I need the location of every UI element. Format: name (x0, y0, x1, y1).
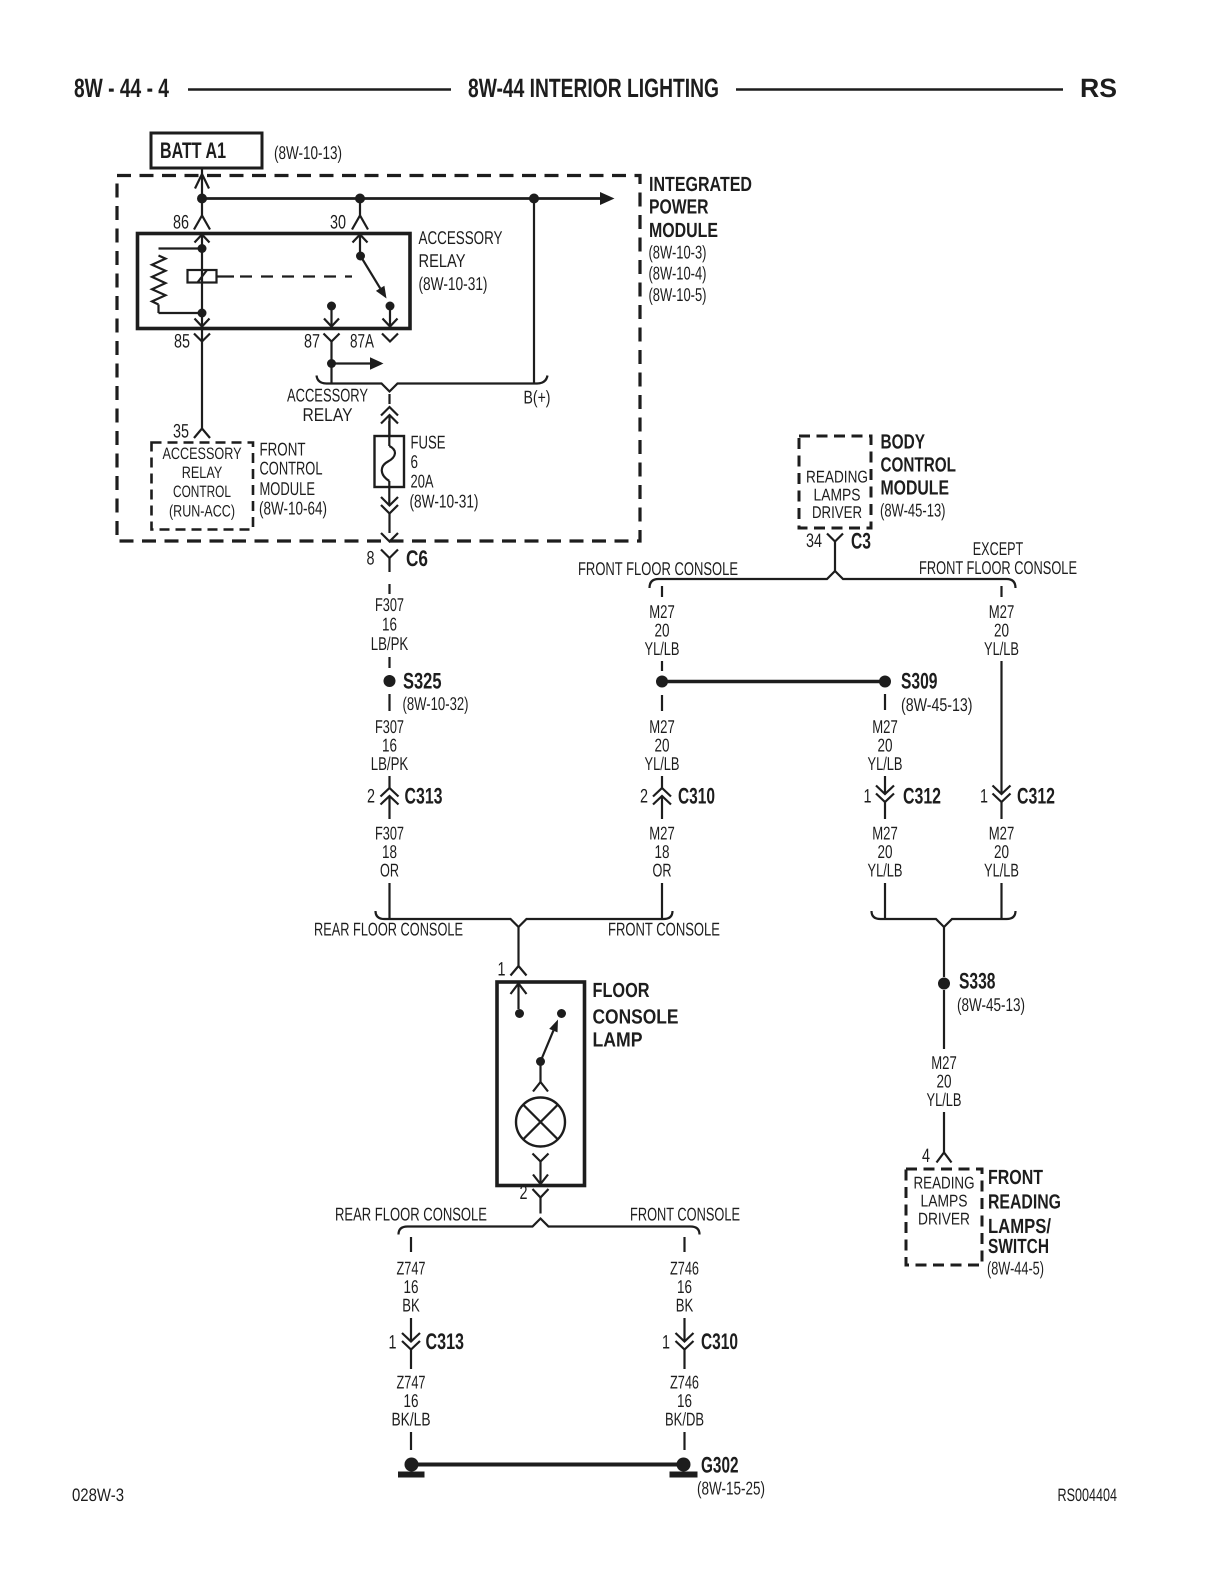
pin 35 label and connector (173, 421, 210, 443)
svg-text:MODULE: MODULE (260, 478, 316, 499)
fuse label (410, 432, 479, 512)
svg-text:MODULE: MODULE (881, 477, 950, 500)
relay contact 87A node (386, 302, 395, 311)
svg-text:(8W-10-5): (8W-10-5) (649, 284, 707, 305)
pin 87A label and connector (350, 331, 398, 353)
wire M27 to pin 4 (943, 1112, 945, 1152)
ground G302 right node (670, 1458, 698, 1475)
wire label F307 16 LB/PK lower (371, 716, 409, 774)
wire label F307 16 LB/PK upper (371, 594, 409, 654)
svg-text:F307: F307 (375, 594, 404, 615)
bulb to lamp pin 2 wire with connector and exit arrowhead (533, 1154, 549, 1185)
svg-text:RELAY: RELAY (419, 250, 466, 271)
splice S309 (879, 676, 891, 688)
wire label M27 20 YL/LB to C310 (645, 716, 680, 774)
svg-text:20A: 20A (411, 471, 434, 492)
svg-text:LB/PK: LB/PK (371, 753, 409, 774)
lamp switch contact node left (515, 1009, 524, 1018)
wire label M27 20 YL/LB below C312 right (984, 823, 1019, 881)
accessory relay control label (163, 445, 242, 521)
svg-text:BK/DB: BK/DB (665, 1409, 704, 1430)
B+ bus wire with right arrowhead (202, 192, 615, 205)
accessory relay label (419, 227, 503, 294)
ground G302 label (697, 1453, 765, 1499)
svg-text:YL/LB: YL/LB (868, 860, 903, 881)
wire dash above S325 (388, 657, 390, 668)
svg-text:C3: C3 (851, 529, 871, 554)
svg-text:FUSE: FUSE (411, 432, 446, 453)
long wire except branch to C312 (1000, 661, 1002, 794)
svg-text:RS: RS (1080, 73, 1117, 103)
wire 87A to box edge with exit arrowhead (383, 310, 398, 327)
wire dash C6 to F307 label (388, 584, 390, 594)
svg-text:FRONT: FRONT (260, 439, 306, 460)
svg-text:LAMPS: LAMPS (814, 486, 861, 505)
svg-text:SWITCH: SWITCH (988, 1235, 1049, 1258)
splice node to S309 (656, 676, 668, 688)
svg-text:6: 6 (411, 451, 419, 472)
svg-text:2: 2 (520, 1182, 528, 1204)
relay coil lower node (198, 309, 207, 318)
connector C3 pin 34 (806, 529, 871, 554)
relay contact wire from pin 30 (353, 235, 368, 257)
brace split front floor console / except (650, 571, 1016, 588)
svg-text:(8W-10-31): (8W-10-31) (419, 273, 488, 294)
wire pin87 to junction (330, 342, 332, 384)
relay contact 87 node (327, 302, 336, 311)
wire label Z746 16 BK (670, 1258, 699, 1316)
connector pin 4 front reading lamps (922, 1145, 952, 1167)
header rule right (736, 88, 1063, 91)
svg-text:(8W-15-25): (8W-15-25) (697, 1478, 765, 1499)
svg-text:(RUN-ACC): (RUN-ACC) (169, 503, 235, 521)
svg-text:ACCESSORY: ACCESSORY (419, 227, 503, 248)
wire dash above splice node (661, 661, 663, 671)
svg-text:BATT A1: BATT A1 (160, 138, 226, 163)
svg-text:BK: BK (676, 1295, 694, 1316)
svg-text:1: 1 (389, 1332, 397, 1354)
svg-text:REAR FLOOR CONSOLE: REAR FLOOR CONSOLE (314, 919, 463, 940)
junction node at B+ takeoff (529, 194, 539, 204)
svg-text:OR: OR (380, 860, 399, 881)
svg-text:FRONT FLOOR CONSOLE: FRONT FLOOR CONSOLE (578, 558, 738, 579)
wire dash below S309 (884, 694, 886, 710)
connector C313 pin 1 (389, 1318, 465, 1369)
wire dash below brace except front floor console (1000, 586, 1002, 597)
svg-text:(8W-10-32): (8W-10-32) (403, 693, 469, 714)
svg-text:028W-3: 028W-3 (72, 1485, 124, 1505)
svg-text:BODY: BODY (881, 431, 926, 454)
svg-text:8W - 44 - 4: 8W - 44 - 4 (74, 73, 169, 103)
svg-text:S325: S325 (403, 669, 442, 694)
wire dash below brace front floor console (661, 586, 663, 597)
svg-text:FRONT CONSOLE: FRONT CONSOLE (630, 1204, 740, 1225)
brace merge rear floor console / front console to lamp (376, 911, 673, 927)
wire exit IPM with arrowhead at dashed border (381, 533, 398, 542)
wire to reading lamps brace left (884, 883, 886, 919)
svg-text:CONTROL: CONTROL (881, 454, 957, 477)
svg-text:READING: READING (988, 1191, 1061, 1214)
junction node on 87 output (327, 359, 336, 368)
svg-text:S338: S338 (959, 969, 996, 994)
svg-text:FRONT FLOOR CONSOLE: FRONT FLOOR CONSOLE (919, 557, 1077, 578)
svg-text:MODULE: MODULE (649, 219, 718, 242)
svg-text:ACCESSORY: ACCESSORY (163, 445, 242, 463)
wire label Z747 16 BK/LB (392, 1372, 431, 1430)
svg-text:(8W-10-64): (8W-10-64) (259, 498, 327, 519)
junction node at 86 feed (197, 194, 207, 204)
fuse 6 20A (375, 421, 405, 506)
relay coil symbol (188, 270, 217, 283)
inline connector double chevron below fuse (381, 497, 398, 533)
svg-text:RS004404: RS004404 (1058, 1485, 1118, 1505)
svg-text:C313: C313 (405, 784, 443, 809)
svg-text:BK: BK (402, 1295, 420, 1316)
wire to reading lamps brace right (1000, 883, 1002, 919)
pin 30 label and connector (330, 203, 368, 234)
front reading lamps/switch label (987, 1166, 1061, 1279)
bulb symbol (516, 1098, 565, 1147)
integrated power module dashed box (117, 176, 640, 542)
svg-text:RELAY: RELAY (182, 464, 223, 482)
wire label M27 20 YL/LB front floor console (645, 601, 680, 659)
svg-text:CONTROL: CONTROL (173, 483, 231, 501)
svg-text:POWER: POWER (649, 196, 709, 219)
wire S338 to M27 label (943, 990, 945, 1049)
body control module dashed box reading lamps driver (799, 436, 871, 528)
svg-text:1: 1 (498, 959, 506, 981)
bold wire splice to S309 (662, 680, 884, 684)
relay coil-side wire pin86 to pin85 with entry/exit arrowheads (195, 235, 210, 341)
wire dash below brace front (683, 1237, 685, 1252)
lamp switch to bulb connector (533, 1062, 548, 1092)
connector C310 pin 2 (640, 776, 715, 819)
svg-text:YL/LB: YL/LB (868, 753, 903, 774)
accessory relay box (138, 234, 411, 329)
svg-text:DRIVER: DRIVER (918, 1210, 970, 1229)
svg-text:C312: C312 (903, 784, 941, 809)
svg-text:B(+): B(+) (524, 387, 551, 408)
relay switch blade with arrowhead (361, 256, 387, 299)
wire dash below brace rear (410, 1237, 412, 1252)
svg-text:35: 35 (173, 421, 189, 443)
svg-text:YL/LB: YL/LB (984, 860, 1019, 881)
svg-text:C6: C6 (406, 546, 428, 571)
svg-text:FRONT: FRONT (988, 1166, 1043, 1189)
lamp switch contact node right (557, 1009, 566, 1018)
splice S309 label (901, 669, 973, 716)
lamp switch blade with arrowhead (541, 1020, 559, 1062)
feed direction arrow accessory relay output (332, 357, 384, 369)
svg-text:2: 2 (367, 786, 375, 808)
battery feed box BATT A1 (151, 133, 262, 168)
svg-text:2: 2 (640, 786, 648, 808)
svg-text:YL/LB: YL/LB (645, 638, 680, 659)
svg-text:(8W-10-4): (8W-10-4) (649, 263, 707, 284)
integrated power module label (649, 173, 753, 305)
svg-text:YL/LB: YL/LB (984, 638, 1019, 659)
svg-text:85: 85 (174, 331, 190, 353)
svg-text:BK/LB: BK/LB (392, 1409, 431, 1430)
reading lamps driver label lower (914, 1174, 975, 1229)
wire F307 to rear floor console brace (388, 883, 390, 919)
relay coil upper node (198, 244, 207, 253)
wire dash above ground right (683, 1432, 685, 1450)
svg-text:16: 16 (382, 614, 397, 635)
svg-text:(8W-45-13): (8W-45-13) (957, 994, 1025, 1015)
svg-text:OR: OR (653, 860, 672, 881)
wire BATT A1 to bus with up arrowhead (195, 168, 209, 199)
wire dash below S325 (388, 694, 390, 711)
pin 87 label and connector (304, 331, 340, 353)
inline connector double chevron above fuse (381, 407, 398, 436)
wire 87 to box edge with exit arrowhead (324, 310, 339, 327)
svg-text:CONSOLE: CONSOLE (593, 1006, 679, 1029)
relay coil to contact dashed link (217, 275, 353, 277)
floor console lamp label (593, 979, 679, 1052)
svg-text:86: 86 (173, 212, 189, 234)
relay suppression resistor (152, 249, 202, 314)
svg-text:G302: G302 (701, 1453, 739, 1478)
wire brace to lamp pin 1 (517, 927, 519, 966)
svg-text:ACCESSORY: ACCESSORY (287, 385, 368, 406)
splice S325 label (403, 669, 469, 715)
svg-text:1: 1 (662, 1332, 670, 1354)
svg-text:34: 34 (806, 530, 822, 552)
floor console lamp box (497, 982, 585, 1186)
wire label M27 20 YL/LB below C312 left (868, 823, 903, 881)
svg-text:4: 4 (922, 1145, 930, 1167)
lamp switch pivot node (536, 1057, 545, 1066)
connector C312 pin 1 left (864, 776, 942, 819)
svg-text:(8W-45-13): (8W-45-13) (880, 500, 946, 521)
svg-text:(8W-10-3): (8W-10-3) (649, 242, 707, 263)
svg-text:EXCEPT: EXCEPT (973, 538, 1024, 559)
svg-text:C313: C313 (426, 1329, 465, 1354)
connector C313 pin 2 (367, 776, 443, 819)
svg-text:(8W-10-13): (8W-10-13) (274, 142, 342, 163)
connector C312 pin 1 right (980, 784, 1055, 820)
wire label Z746 16 BK/DB (665, 1372, 704, 1430)
svg-text:1: 1 (864, 786, 872, 808)
wire stub below brace (388, 394, 390, 404)
svg-text:8W-44 INTERIOR LIGHTING: 8W-44 INTERIOR LIGHTING (468, 73, 719, 103)
wire pin85 down to pin35 (201, 342, 203, 429)
svg-text:YL/LB: YL/LB (645, 753, 680, 774)
wire label F307 18 OR (375, 823, 404, 881)
accessory relay control dashed box (152, 443, 254, 530)
svg-text:FLOOR: FLOOR (593, 979, 650, 1002)
splice S325 (384, 675, 396, 687)
svg-text:CONTROL: CONTROL (260, 458, 323, 479)
wire B+ drop to brace (533, 203, 535, 384)
svg-text:(8W-10-31): (8W-10-31) (410, 491, 479, 512)
svg-text:S309: S309 (901, 669, 938, 694)
lamp pin 1 connector (498, 959, 527, 981)
connector C6 pin 8 (367, 546, 429, 572)
svg-text:8: 8 (367, 548, 375, 570)
connector C310 pin 1 (662, 1318, 738, 1369)
svg-text:87: 87 (304, 331, 320, 353)
junction node at 30 feed (355, 194, 365, 204)
brace merge accessory relay and B+ (317, 376, 548, 392)
svg-text:REAR FLOOR CONSOLE: REAR FLOOR CONSOLE (335, 1204, 487, 1225)
wire label M27 20 YL/LB to reading lamps (927, 1052, 962, 1110)
body control module label (880, 431, 956, 521)
svg-text:30: 30 (330, 212, 346, 234)
svg-text:C312: C312 (1017, 784, 1055, 809)
label except front floor console option (919, 538, 1077, 578)
lamp pin 2 connector (520, 1182, 549, 1214)
svg-text:DRIVER: DRIVER (812, 503, 862, 522)
wire label M27 20 YL/LB below S309 (868, 716, 903, 774)
relay contact pivot node (356, 252, 365, 261)
pin 85 label and connector (174, 331, 210, 353)
pin 86 label and connector (173, 203, 210, 234)
wire C3 to split brace (834, 552, 836, 571)
wire dash above ground (410, 1432, 412, 1450)
front reading lamps dashed box reading lamps driver (906, 1169, 982, 1265)
svg-text:READING: READING (806, 468, 868, 487)
brace split rear floor console / front console grounds (399, 1219, 700, 1235)
svg-text:RELAY: RELAY (303, 404, 353, 425)
wire label M27 20 YL/LB except branch (984, 601, 1019, 659)
wire dash below splice node (661, 695, 663, 711)
svg-text:READING: READING (914, 1174, 975, 1193)
svg-text:87A: 87A (350, 331, 374, 353)
svg-text:LAMP: LAMP (593, 1029, 643, 1052)
splice S338 label (957, 969, 1025, 1016)
svg-text:C310: C310 (701, 1329, 738, 1354)
lamp entry wire with arrowhead (511, 984, 527, 1010)
brace merge to front reading lamps (872, 911, 1016, 927)
svg-text:LAMPS: LAMPS (921, 1192, 968, 1211)
svg-text:LB/PK: LB/PK (371, 633, 409, 654)
splice S338 (938, 978, 950, 990)
ground G302 left node (398, 1458, 425, 1475)
svg-text:YL/LB: YL/LB (927, 1089, 962, 1110)
svg-text:FRONT CONSOLE: FRONT CONSOLE (608, 919, 720, 940)
svg-text:C310: C310 (678, 784, 715, 809)
wire label M27 18 OR (649, 823, 675, 881)
svg-text:INTEGRATED: INTEGRATED (649, 173, 752, 196)
front control module label (259, 439, 327, 519)
label accessory relay source (287, 385, 368, 426)
ground bus wire (412, 1463, 684, 1467)
header rule left (188, 88, 451, 91)
reading lamps driver label (806, 468, 868, 523)
svg-text:1: 1 (980, 786, 988, 808)
wire brace to splice S338 (943, 927, 945, 977)
wire M27 to front console brace (661, 883, 663, 919)
svg-text:(8W-44-5): (8W-44-5) (987, 1258, 1044, 1279)
svg-text:(8W-45-13): (8W-45-13) (901, 694, 973, 715)
wire label Z747 16 BK (397, 1258, 426, 1316)
